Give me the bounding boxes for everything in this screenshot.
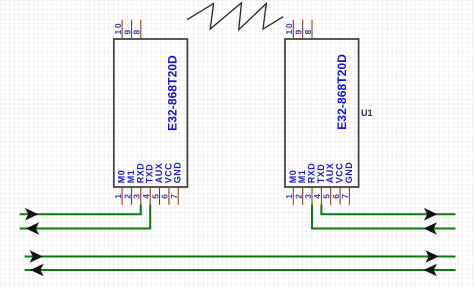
pin 2 M1 (left module) xyxy=(122,170,136,205)
pin 10 (right module, top) xyxy=(284,20,294,38)
wire net C xyxy=(25,256,456,258)
pin 9 (left module, top) xyxy=(122,20,132,38)
arrow right, net C right end xyxy=(426,250,439,263)
arrow left, net B left end xyxy=(26,222,39,235)
arrow right, net A right end xyxy=(424,208,437,221)
arrow left, net D left end xyxy=(30,264,43,277)
svg-text:7: 7 xyxy=(340,194,350,199)
arrow left, net D right end xyxy=(424,264,437,277)
pin 3 RXD (left module) xyxy=(132,163,146,205)
arrow right, net C left end xyxy=(30,250,43,263)
pin 5 AUX (right module) xyxy=(322,163,336,205)
pin 4 TXD (left module) xyxy=(141,164,155,205)
svg-text:E32-868T20D: E32-868T20D xyxy=(335,54,349,130)
pin 4 TXD (right module) xyxy=(312,164,326,205)
pin 1 M0 (left module) xyxy=(113,170,127,205)
arrow left, net B right end xyxy=(424,222,437,235)
wire right TXD drop (pin4 to net A right) xyxy=(321,205,455,215)
wire net D xyxy=(25,269,456,271)
pin 2 M1 (right module) xyxy=(294,170,308,205)
pin 8 (left module, top) xyxy=(132,20,142,38)
wire right RXD drop (pin3 to net B right) xyxy=(312,205,456,229)
svg-text:U1: U1 xyxy=(361,108,373,118)
pin 9 (right module, top) xyxy=(294,20,304,38)
pin 5 AUX (left module) xyxy=(150,163,164,205)
RF link squiggle (graphic line) xyxy=(187,3,283,30)
pin 8 (right module, top) xyxy=(303,20,313,38)
pin 1 M0 (right module) xyxy=(284,170,298,205)
pin 10 (left module, top) xyxy=(113,20,123,38)
svg-text:E32-868T20D: E32-868T20D xyxy=(165,55,179,131)
wire left RXD drop (pin3 to net A) xyxy=(20,205,141,215)
svg-text:8: 8 xyxy=(303,29,313,34)
svg-text:7: 7 xyxy=(169,194,179,199)
arrow right, net A left end xyxy=(25,208,38,221)
body rectangle right module xyxy=(285,39,359,187)
svg-text:GND: GND xyxy=(173,162,183,184)
svg-text:GND: GND xyxy=(344,162,354,184)
wire left TXD drop (pin4 to net B) xyxy=(20,205,151,229)
pin 7 GND (left module) xyxy=(169,162,183,205)
pin 7 GND (right module) xyxy=(340,162,354,205)
pin 6 VCC (right module) xyxy=(331,163,345,205)
pin 6 VCC (left module) xyxy=(160,163,174,205)
svg-text:8: 8 xyxy=(132,29,142,34)
pin 3 RXD (right module) xyxy=(303,163,317,205)
body rectangle left module xyxy=(114,39,188,187)
